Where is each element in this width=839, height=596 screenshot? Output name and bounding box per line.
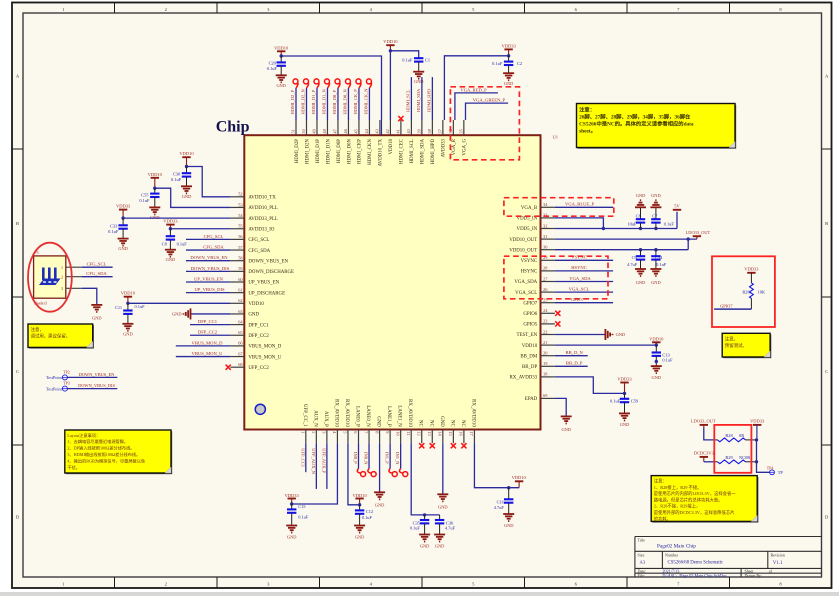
ground below C11 [122, 324, 133, 337]
svg-text:UFP_AUX_N: UFP_AUX_N [311, 448, 316, 475]
svg-text:C33: C33 [110, 223, 118, 228]
svg-text:51: 51 [291, 129, 296, 133]
svg-text:UFP_CC1: UFP_CC1 [300, 448, 305, 467]
svg-text:VDD10: VDD10 [274, 45, 289, 50]
svg-text:C35: C35 [413, 520, 421, 525]
svg-text:BB_DP: BB_DP [522, 365, 538, 370]
test point TP3 net DOWN_VBUS_DIS [46, 382, 117, 392]
svg-text:DOWN_DISCHARGE: DOWN_DISCHARGE [248, 270, 294, 275]
svg-text:GND: GND [355, 534, 365, 539]
wire DCDC3V3 to R29 [704, 461, 718, 463]
svg-text:VDD10: VDD10 [148, 172, 163, 177]
ground below C36 [434, 535, 445, 549]
red dashed highlight box around VGA_BLUE_P [504, 198, 614, 217]
svg-text:HDMI_D2_N: HDMI_D2_N [301, 89, 306, 115]
svg-text:VDD33: VDD33 [285, 493, 300, 498]
op-amp U1 main chip body [244, 135, 540, 429]
svg-text:IN0_N: IN0_N [364, 452, 369, 465]
wire net VGA_SDA pin 27 [555, 276, 613, 282]
svg-text:0.1uF: 0.1uF [664, 222, 675, 227]
svg-text:VDD10: VDD10 [352, 493, 367, 498]
wire net DFP_CC2 to pin 65 [190, 330, 230, 336]
svg-text:4.7uF: 4.7uF [445, 526, 456, 531]
svg-text:HSYNC: HSYNC [571, 265, 587, 270]
svg-text:GND: GND [166, 257, 176, 262]
svg-text:TEST_EN: TEST_EN [517, 333, 538, 338]
svg-text:VDD5_IN: VDD5_IN [517, 227, 538, 232]
wire pin 33 VDD5_IN [555, 218, 605, 230]
svg-text:22: 22 [543, 329, 547, 334]
wire HDMI pin 51 with diff-pair marker and net label HDMI_D2_P [290, 79, 298, 120]
svg-text:TP: TP [778, 470, 784, 475]
wire VDD10/C55 to pin 53 [155, 188, 231, 207]
svg-text:GND: GND [118, 246, 128, 251]
svg-text:0.1uF: 0.1uF [662, 358, 673, 363]
svg-text:VGA_G: VGA_G [463, 139, 468, 156]
svg-text:VDD10: VDD10 [512, 475, 527, 480]
power VDD10 rail top-left [274, 45, 289, 57]
svg-text:0.1uF: 0.1uF [177, 241, 188, 246]
svg-text:HDMI_D1P: HDMI_D1P [316, 139, 321, 163]
wire pin 11 RX_AVDD10 to C35 C36 [411, 443, 439, 516]
wire HDMI pin 49 with diff-pair marker and net label HDMI_D1_P [311, 79, 319, 120]
wire net DFP_CC1 to pin 64 [190, 319, 230, 325]
power DCDC3V3 [694, 451, 715, 462]
wire VDD33/C33 to pin 54 [123, 217, 230, 219]
svg-text:0.1uF: 0.1uF [298, 515, 309, 520]
svg-text:5V: 5V [674, 204, 680, 209]
resistor R29 NC0R [718, 455, 751, 464]
wire net UFP_AUX_P pin 3 [321, 443, 327, 489]
svg-text:路电源，但是芯片的总体功耗大些。: 路电源，但是芯片的总体功耗大些。 [654, 496, 723, 503]
svg-text:Layout注意事项：: Layout注意事项： [67, 432, 100, 439]
wire net CFG_SCL to pin 56 [186, 234, 230, 240]
wire net BB_D_P pin 19 [555, 361, 588, 367]
svg-text:TestPoint: TestPoint [46, 386, 63, 391]
svg-text:21: 21 [543, 340, 547, 345]
svg-text:12: 12 [416, 431, 421, 435]
svg-text:0.1uF: 0.1uF [139, 198, 150, 203]
svg-text:是使用芯片的内部的LDO3.3V，这样会省一: 是使用芯片的内部的LDO3.3V，这样会省一 [654, 490, 736, 497]
svg-text:VDD10_OUT: VDD10_OUT [509, 238, 537, 243]
power VDD10 above C13 [649, 336, 664, 347]
svg-text:DFP_CC1: DFP_CC1 [248, 323, 269, 328]
frame row labels A-D [12, 74, 832, 520]
svg-text:1: 1 [301, 431, 306, 433]
svg-text:LDO33_OUT: LDO33_OUT [686, 230, 711, 235]
svg-text:10uF: 10uF [627, 222, 637, 227]
svg-text:调试用，建议保留。: 调试用，建议保留。 [31, 333, 71, 340]
svg-text:R28: R28 [725, 433, 733, 438]
svg-text:HDMI_SDA: HDMI_SDA [421, 139, 426, 165]
svg-text:C7: C7 [652, 213, 658, 218]
svg-text:42: 42 [385, 129, 390, 133]
svg-text:VGA_SCL: VGA_SCL [569, 286, 590, 291]
capacitor C30 0.1uF [171, 167, 191, 187]
svg-text:HDMI_D0_P: HDMI_D0_P [332, 90, 337, 115]
svg-text:C: C [16, 369, 19, 374]
wire VDD33/C8 to pin 55 [170, 228, 230, 230]
capacitor C55 0.1uF [139, 188, 159, 207]
no-connect X on pin 41 HDMI_CEC [398, 116, 403, 121]
capacitor C35 0.1uF [410, 515, 430, 535]
svg-text:26脚、27脚、28脚、29脚，34脚，35脚，36脚在: 26脚、27脚、28脚、29脚，34脚，35脚，36脚在 [579, 113, 691, 121]
svg-text:TP2: TP2 [63, 370, 70, 374]
yellow note: layout notes [65, 430, 172, 474]
svg-text:VDD10: VDD10 [179, 151, 194, 156]
svg-text:VGA_B: VGA_B [521, 206, 538, 211]
svg-text:DOWN_VBUS_EN: DOWN_VBUS_EN [79, 372, 115, 377]
svg-text:2、DP输入线按照100Ω差分线布线。: 2、DP输入线按照100Ω差分线布线。 [67, 445, 134, 452]
svg-text:3: 3 [61, 286, 63, 291]
wire net BB_D_N pin 20 [555, 350, 588, 356]
svg-text:VGA_SDA: VGA_SDA [514, 280, 537, 285]
wire HDMI pin 47 with diff-pair marker and net label HDMI_D0_P [332, 79, 340, 120]
svg-text:VDD33: VDD33 [163, 219, 178, 224]
ground below C20 [276, 75, 287, 88]
svg-text:RX_AVDD33: RX_AVDD33 [510, 376, 538, 381]
svg-text:Title: Title [638, 538, 646, 543]
pin 1 marker circle [255, 404, 265, 414]
ground below C35 [419, 535, 430, 549]
test point TP4 [767, 466, 784, 475]
svg-text:GND: GND [123, 331, 133, 336]
svg-text:GND: GND [504, 523, 514, 528]
svg-text:LANE0_P: LANE0_P [355, 406, 360, 427]
wire net IN0_P pin 6 with diff-pair marker [353, 443, 366, 476]
capacitor C7 0.1uF [651, 207, 674, 228]
power VDD33 above C59 [617, 377, 632, 396]
no-connect X pins 12 13 15 16 [419, 443, 466, 448]
chip right pins 34-18 and EPAD stubs, numbers and names [509, 202, 555, 402]
svg-text:52: 52 [238, 192, 242, 197]
svg-text:CFG_SDA: CFG_SDA [86, 271, 107, 276]
capacitor C15 0.1uF [287, 504, 309, 526]
wire net IN0_N pin 7 with diff-pair marker [364, 443, 377, 476]
svg-text:HDMI_CEC: HDMI_CEC [400, 139, 405, 164]
ground below C8 [165, 250, 176, 263]
svg-text:NC: NC [428, 420, 433, 427]
svg-text:Number: Number [665, 552, 679, 557]
svg-text:RX_AVDD10: RX_AVDD10 [344, 399, 349, 427]
wire net CFG_SCL from P3 pin 1 [82, 262, 113, 268]
wire pin 17 RX_AVDD10 to VDD10/C16 [474, 443, 519, 489]
svg-text:GND: GND [652, 375, 662, 380]
svg-text:VGA_RED_P: VGA_RED_P [460, 87, 487, 92]
svg-text:GND: GND [561, 427, 571, 432]
svg-text:R26: R26 [742, 289, 750, 294]
wire net VSYNC pin 29 [555, 255, 613, 261]
red highlight box around GPIO7 pull-up [712, 256, 775, 327]
svg-text:V1.1: V1.1 [773, 561, 783, 566]
designator U1 [553, 135, 559, 140]
svg-text:CFG_SDA: CFG_SDA [248, 249, 270, 254]
svg-text:C16: C16 [497, 500, 505, 505]
wire net CFG_SDA from P3 pin 2 [82, 271, 113, 277]
wire pin 32 VDD5_IN to 5V [555, 212, 677, 231]
red ellipse highlight around connector P3 [28, 243, 72, 312]
svg-text:10K: 10K [758, 289, 766, 294]
svg-text:0.1uF: 0.1uF [410, 526, 421, 531]
svg-text:DOWN_VBUS_DIS: DOWN_VBUS_DIS [191, 266, 230, 271]
svg-text:GPIO7: GPIO7 [720, 303, 733, 308]
svg-text:GND: GND [375, 502, 385, 507]
svg-text:0.1uF: 0.1uF [108, 229, 119, 234]
power VDD33 bottom right [750, 419, 765, 440]
wire HDMI pin 46 with diff-pair marker and net label HDMI_D0_N [343, 79, 351, 120]
wire net HSYNC pin 28 [555, 265, 613, 271]
svg-text:C1: C1 [425, 58, 430, 63]
svg-text:0.1uF: 0.1uF [492, 61, 503, 66]
power LDO33_OUT [686, 230, 711, 239]
svg-text:VDD33: VDD33 [617, 377, 632, 382]
wire pin 21 VDD10 [555, 344, 656, 346]
power VDD33 top right [501, 43, 516, 57]
svg-text:UP_DISCHARGE: UP_DISCHARGE [248, 291, 285, 296]
svg-text:是使用外部的DCDC3.3V，这样会降低芯片: 是使用外部的DCDC3.3V，这样会降低芯片 [654, 509, 735, 516]
svg-text:C8: C8 [162, 241, 168, 246]
svg-text:32: 32 [543, 223, 547, 228]
capacitor C9 4.7uF [627, 250, 645, 269]
wire HDMI pin 44 with diff-pair marker and net label HDMI_CK_N [364, 79, 372, 120]
wire VDD33 to pin 37 AVDD33 [444, 56, 508, 120]
svg-text:BB_D_P: BB_D_P [566, 361, 583, 366]
yellow note: R28 R29 LDO DCDC selection [651, 476, 758, 523]
svg-text:IN1_N: IN1_N [395, 452, 400, 465]
red highlight box around R28 R29 [714, 425, 751, 473]
power VDD10 above C16 [512, 475, 527, 488]
wire VGA_GREEN_P from pin 35 [466, 98, 509, 121]
no-connect X pin 24 GPIO6 [555, 311, 560, 316]
svg-text:VGA_SDA: VGA_SDA [569, 276, 591, 281]
svg-text:GND: GND [182, 194, 192, 199]
svg-text:HDMI_CKP: HDMI_CKP [358, 139, 363, 164]
svg-text:GND: GND [616, 332, 626, 337]
svg-text:HDMI_D2_P: HDMI_D2_P [290, 90, 295, 115]
svg-text:DFP_CC2: DFP_CC2 [248, 334, 269, 339]
svg-text:sheet。: sheet。 [579, 129, 596, 135]
svg-text:GND: GND [287, 534, 297, 539]
wire net VBUS_MON_U to pin 67 [176, 351, 231, 357]
ground above C7 [650, 193, 661, 207]
svg-text:D:\ASL\..\Page 02 Main Chip.Sc: D:\ASL\..\Page 02 Main Chip.SchDoc [662, 573, 727, 578]
svg-text:注意：: 注意： [579, 105, 595, 113]
capacitor C33 0.1uF [108, 218, 128, 239]
svg-text:0.1uF: 0.1uF [135, 304, 146, 309]
power LDO33_OUT bottom [691, 418, 716, 427]
svg-text:TP3: TP3 [63, 382, 70, 386]
connector P3 3-pin header [34, 250, 82, 305]
wire net CFG_SDA to pin 57 [186, 244, 230, 250]
power VDD33 above C15 [285, 493, 300, 506]
wire HDMI pin 48 with diff-pair marker and net label HDMI_D1_N [322, 79, 330, 120]
wire VDD10/C30 to pin 52 [187, 167, 231, 197]
svg-text:Revision: Revision [771, 552, 785, 557]
svg-text:VGA_BLUE_P: VGA_BLUE_P [565, 201, 595, 206]
wire R29 to junction and test point TP4 [746, 440, 770, 472]
capacitor C34 0.1uF [651, 250, 667, 269]
svg-text:EPAD: EPAD [525, 397, 538, 402]
svg-text:UP_VBUS_EN: UP_VBUS_EN [194, 276, 224, 281]
svg-text:GPIO6: GPIO6 [523, 312, 537, 317]
svg-text:CS5266中是NC的。具体的定义请参看相应的data: CS5266中是NC的。具体的定义请参看相应的data [579, 120, 694, 128]
svg-text:VDD10_OUT: VDD10_OUT [509, 248, 537, 253]
wire VDD10 to pin 42 and C1 [390, 51, 418, 120]
svg-text:RX_AVDD10: RX_AVDD10 [333, 399, 338, 427]
wire net VGA_BLUE_P from pin 34 [555, 201, 613, 207]
svg-text:GND: GND [620, 422, 630, 427]
svg-text:VBUS_MON_D: VBUS_MON_D [192, 340, 224, 345]
svg-text:HDMI_SCL: HDMI_SCL [410, 139, 415, 163]
svg-text:0.1uF: 0.1uF [171, 177, 182, 182]
wire pin 8 GND to ground [374, 443, 385, 507]
svg-text:注意：: 注意： [654, 478, 667, 485]
svg-text:GND: GND [651, 280, 661, 285]
svg-text:TestPoint: TestPoint [46, 375, 63, 380]
svg-text:4.7uF: 4.7uF [627, 262, 638, 267]
wire pin 5 RX_AVDD10 to VDD10/C12 [348, 443, 360, 505]
svg-text:预留测试。: 预留测试。 [725, 342, 747, 349]
capacitor C2 0.1uF [492, 56, 522, 73]
wire net GPIO7 pin 25 [555, 297, 613, 303]
no-connect X pin 23 GPIO5 [555, 321, 560, 326]
ground below C55 [149, 207, 160, 220]
wire net UP_VBUS_EN to pin 60 [186, 276, 230, 282]
svg-text:C20: C20 [269, 61, 277, 66]
svg-text:NC: NC [418, 420, 423, 427]
svg-text:3、HDMI输出线按照100Ω差分线布线。: 3、HDMI输出线按照100Ω差分线布线。 [67, 451, 140, 458]
svg-text:BB_DM: BB_DM [520, 354, 538, 359]
ground below C2 [503, 73, 514, 86]
svg-text:IN0_P: IN0_P [353, 452, 358, 464]
chip left pins 52-68 stubs, numbers and names [230, 192, 294, 371]
svg-text:R29: R29 [725, 455, 733, 460]
svg-text:1、去耦电容尽量靠近电源管脚。: 1、去耦电容尽量靠近电源管脚。 [67, 438, 128, 445]
svg-text:UP_VBUS_DIS: UP_VBUS_DIS [194, 287, 225, 292]
power VDD33 above C8 [163, 219, 178, 231]
capacitor C36 4.7uF [435, 515, 456, 535]
svg-text:CFG_SCL: CFG_SCL [248, 238, 269, 243]
yellow note: reserved for test [722, 333, 771, 358]
svg-text:GND: GND [439, 416, 444, 427]
svg-text:1、R28接上，R29 不接。: 1、R28接上，R29 不接。 [654, 484, 702, 491]
svg-text:DOWN_VBUS_DIS: DOWN_VBUS_DIS [78, 383, 115, 388]
wire R28 to VDD33 junction [746, 438, 759, 441]
svg-text:AVDD33: AVDD33 [442, 138, 447, 157]
svg-text:CFG_SDA: CFG_SDA [203, 244, 224, 249]
svg-text:GND: GND [276, 83, 286, 88]
ground below P3 [91, 305, 102, 321]
power VDD33 above C33 [116, 204, 131, 220]
svg-text:B: B [825, 221, 828, 226]
power VDD33 above R26 [744, 266, 759, 283]
capacitor C6 10uF [627, 207, 645, 228]
wire pin 4 RX_AVDD10 to VDD33/C15 [292, 443, 338, 504]
power VDD10 above C11 [121, 291, 136, 305]
svg-text:GND: GND [248, 313, 259, 318]
svg-text:NC: NC [460, 420, 465, 427]
svg-text:C: C [825, 369, 828, 374]
wire HDMI pin 50 with diff-pair marker and net label HDMI_D2_N [301, 79, 309, 120]
wire net DOWN_VBUS_DIS to pin 59 [186, 266, 230, 272]
ground below EPAD [561, 416, 572, 432]
wire pin 30 VDD10_OUT [555, 239, 688, 251]
svg-text:GPIO7: GPIO7 [523, 301, 537, 306]
svg-text:VSYNC: VSYNC [521, 259, 538, 264]
svg-text:GND: GND [636, 280, 646, 285]
wire net VGA_SCL pin 26 [555, 286, 613, 292]
svg-text:干扰。: 干扰。 [67, 464, 80, 471]
svg-text:C55: C55 [141, 192, 149, 197]
ground below C9 [635, 269, 646, 285]
svg-text:VDD10: VDD10 [121, 291, 136, 296]
svg-text:GND: GND [150, 215, 160, 220]
svg-text:VDD33: VDD33 [501, 43, 516, 48]
capacitor C12 0.1uF [355, 505, 373, 526]
svg-text:61: 61 [238, 287, 242, 292]
wire net IN1_N pin 10 with diff-pair marker [395, 443, 408, 476]
svg-text:GND: GND [420, 543, 430, 548]
wire P3 pin 3 to ground [82, 288, 97, 305]
svg-text:AVDD33_IO: AVDD33_IO [248, 227, 274, 232]
svg-text:C34: C34 [655, 255, 663, 260]
ground below C13 [651, 366, 662, 380]
svg-text:HDMI_HPD: HDMI_HPD [431, 139, 436, 165]
svg-text:GND: GND [636, 193, 646, 198]
power VDD10 above C12 [352, 493, 367, 507]
svg-text:2: 2 [311, 431, 316, 433]
power VDD10 above pin 42 [383, 39, 398, 52]
svg-text:GPIO5: GPIO5 [523, 323, 537, 328]
svg-text:GND: GND [435, 543, 445, 548]
wire net UFP_AUX_N pin 2 [311, 443, 317, 489]
svg-text:DOWN_VBUS_EN: DOWN_VBUS_EN [190, 255, 228, 260]
svg-text:File:: File: [638, 573, 645, 578]
ground below C16 [503, 514, 514, 528]
svg-text:HDMI_CKN: HDMI_CKN [368, 139, 373, 165]
svg-text:B: B [16, 221, 19, 226]
svg-text:VDD10: VDD10 [248, 302, 264, 307]
capacitor C1 0.1uF [402, 58, 430, 72]
svg-text:Drawn By:: Drawn By: [745, 573, 763, 578]
power 5V [673, 204, 681, 210]
wire net UP_VBUS_DIS to pin 61 [186, 287, 230, 293]
wire net UFP_CC1 pin 1 [300, 443, 306, 472]
ground below C59 [619, 413, 630, 427]
svg-text:RX_AVDD10: RX_AVDD10 [470, 399, 475, 427]
svg-text:HDMI_D1_N: HDMI_D1_N [322, 89, 327, 115]
svg-text:LANE1_P: LANE1_P [386, 406, 391, 427]
svg-text:11: 11 [406, 431, 411, 435]
svg-text:DFP_CC1: DFP_CC1 [198, 319, 218, 324]
svg-text:AVDD33_PLL: AVDD33_PLL [248, 217, 278, 222]
capacitor C59 0.1uF [610, 393, 639, 413]
svg-text:0R: 0R [739, 433, 744, 438]
power VDD10 above C55 [148, 172, 163, 190]
red dashed highlight box around VGA red and green nets [450, 87, 519, 160]
svg-text:C30: C30 [173, 171, 181, 176]
svg-text:GND: GND [376, 416, 381, 427]
svg-text:4、输出的RGB为模拟信号，尽量屏蔽以免: 4、输出的RGB为模拟信号，尽量屏蔽以免 [67, 457, 145, 464]
capacitor C20 0.1uF [267, 56, 286, 75]
svg-text:HDMI_CK_P: HDMI_CK_P [353, 89, 358, 115]
svg-text:VDD18: VDD18 [389, 138, 394, 154]
wire HDMI pin 45 with diff-pair marker and net label HDMI_CK_P [353, 79, 361, 120]
connector P3 header icon [39, 268, 61, 286]
ground above C6 [635, 193, 646, 207]
svg-text:VGA_R: VGA_R [452, 138, 457, 155]
svg-text:VBUS_MON_U: VBUS_MON_U [248, 355, 281, 360]
